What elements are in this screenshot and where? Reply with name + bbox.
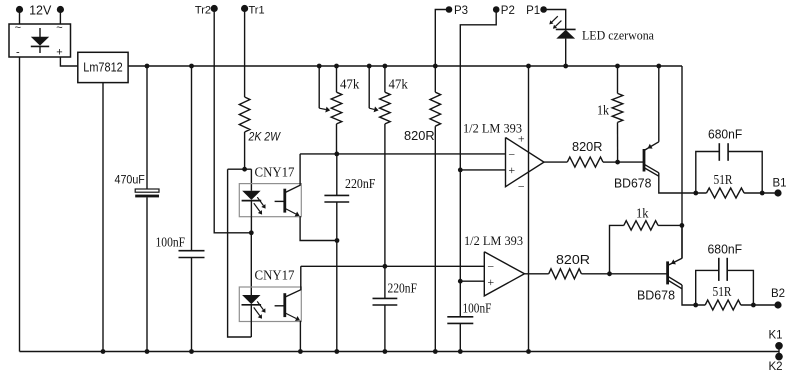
LED D1 inside CNY17 upper [242,191,260,200]
svg-text:LED czerwona: LED czerwona [582,28,654,43]
svg-text:BD678: BD678 [614,176,651,191]
junction rail RV2 wiper [367,64,372,69]
regulator U1 Lm7812 box [78,52,128,82]
svg-text:CNY17: CNY17 [255,268,295,283]
svg-text:+: + [487,275,494,289]
svg-text:BD678: BD678 [637,288,675,303]
svg-text:K1: K1 [768,329,782,341]
optocoupler U2 CNY17 box [239,184,301,217]
svg-text:Lm7812: Lm7812 [83,61,123,75]
svg-text:+: + [518,132,525,146]
wire Q1 collector down to output line [659,173,707,193]
wire R8 to B2 [741,304,775,306]
svg-text:-: - [16,47,20,59]
phototransistor emitter CNY17 lower with arrow [285,313,296,319]
capacitor C4 220nF plates [373,297,398,299]
wire LED1 cathode down to midpoint [250,217,252,233]
wire bridge minus to ground rail [19,57,21,352]
terminal P3 [446,6,453,13]
junction ground supply [526,349,531,354]
wire P2 jog down to input column [460,12,496,170]
terminal Tr2 [211,5,218,12]
svg-text:−: − [487,259,494,273]
potentiometer RV1 wiper [318,66,320,108]
capacitor C6 680nF parallel branch [696,152,720,194]
wire LED midpoint down to LED2 anode [250,233,252,295]
resistor R5 51R [707,188,745,198]
capacitor C4 220nF wire [384,266,386,298]
svg-text:K2: K2 [768,361,782,373]
svg-text:Tr2: Tr2 [195,4,211,16]
capacitor C2 100nF plates [179,250,205,252]
svg-text:~: ~ [56,22,62,34]
svg-text:−: − [508,147,515,161]
wire R3 to base node [603,161,618,163]
junction ground Lm7812 [101,349,106,354]
light arrows CNY17 lower [257,301,263,309]
svg-text:Tr1: Tr1 [249,4,265,16]
junction ground 100nF [189,349,194,354]
junction N1 pot1 [334,152,339,157]
junction rail RV1 top [334,64,339,69]
capacitor C2 100nF wire bottom [191,258,193,352]
svg-text:51R: 51R [714,172,733,187]
resistor R3 820R [567,157,603,167]
svg-text:470uF: 470uF [115,173,145,187]
wire op2 plus input [460,280,484,282]
wire Tr2 down to LED midpoint [214,12,251,233]
resistor R1 2K 2W [239,97,250,132]
bridge rectifier B1 box [9,24,71,57]
junction ground R2 [433,349,438,354]
terminal Tr1 [241,5,248,12]
transistor Q1 emitter with arrow to +12V [644,142,659,151]
potentiometer RV2 47k top wire [384,66,386,92]
svg-text:B2: B2 [771,288,785,300]
svg-text:~: ~ [15,22,21,34]
wire bridge plus to regulator input [60,57,77,66]
capacitor C4 220nF wire bottom [384,305,386,352]
junction op2 plus input [458,279,463,284]
capacitor C1 470uF wire bottom [146,197,148,351]
junction LED midpoint [249,230,254,235]
svg-text:820R: 820R [572,140,602,154]
wire Q2 collector down to output line 2 [682,285,705,305]
svg-text:1/2 LM 393: 1/2 LM 393 [464,233,523,248]
wire column down to capacitor C5 [459,281,461,317]
junction output2 left node [693,303,698,308]
wire op2 output [525,273,549,275]
resistor R8 51R [705,300,741,310]
transistor Q2 base bar [666,261,669,284]
svg-text:820R: 820R [556,253,590,267]
resistor R2 820R vertical [430,92,441,126]
svg-text:B1: B1 [772,178,786,190]
potentiometer RV1 47k body [331,92,342,124]
LED D3 light arrows [552,16,558,22]
bridge diode symbol [39,28,41,37]
transistor Q2 collector double line [668,276,682,285]
resistor R6 820R [549,269,582,279]
capacitor C3 220nF plates [324,194,349,196]
junction rail P3 [433,64,438,69]
terminal B1 [774,189,781,196]
junction op1 plus input [458,168,463,173]
wire R1 to node A [244,132,246,169]
junction rail Q1 emitter [656,64,661,69]
phototransistor collector CNY17 upper [285,154,300,193]
junction ground C3 [334,349,339,354]
terminal 12V input left [16,6,23,13]
junction 1k to +12 drop [680,223,685,228]
wire node A right branch to LED1 anode [250,169,252,191]
capacitor C5 100nF plates [447,316,473,318]
comparator U4B 1/2 LM393 triangle [484,252,524,296]
capacitor C1 470uF wire top [146,66,148,189]
junction base node Q2 [607,271,612,276]
junction rail 470uF [145,64,150,69]
svg-text:2K 2W: 2K 2W [248,132,281,144]
transistor Q1 BD678 base wire [618,161,644,163]
capacitor C3 220nF wire [336,154,338,196]
junction output1 left node [693,191,698,196]
junction rail supply [526,64,531,69]
terminal 12V input right [57,6,64,13]
junction rail LED [563,64,568,69]
junction N2 pot2 [383,264,388,269]
phototransistor base bar CNY17 lower [283,293,286,317]
junction ground C4 [383,349,388,354]
phototransistor emitter CNY17 upper with arrow [285,209,296,215]
terminal K2 [775,353,783,361]
resistor R4 1k pullup [617,66,619,93]
wire +12V rail end drop to Q2 emitter [681,66,683,259]
wire LED2 cathode down and back [250,305,252,337]
terminal P1 [540,6,547,13]
node A junction [242,167,247,172]
wire ground bottom rail [20,351,780,353]
potentiometer RV2 47k body [380,92,391,124]
terminal K1 [775,342,783,350]
wire R5 to B1 [744,192,774,194]
transistor Q1 collector double line [644,164,659,173]
transistor Q2 emitter with arrow to +12V [668,258,682,265]
svg-text:47k: 47k [340,77,360,92]
junction ground 470uF [145,349,150,354]
svg-text:1k: 1k [597,103,609,118]
wire Tr1 down to resistor R1 [244,12,246,97]
junction rail 100nF [189,64,194,69]
svg-text:−: − [518,179,525,193]
svg-text:+: + [56,47,62,59]
potentiometer RV2 wiper [368,66,370,108]
svg-text:P3: P3 [454,5,468,17]
capacitor C3 220nF wire bottom to ground [336,202,338,352]
potentiometer RV1 47k top wire [336,66,338,92]
junction ground C5 [458,349,463,354]
wire op1 plus input [460,169,505,171]
resistor R7 1k feedback [610,225,624,273]
wire input column down to op2 plus [459,170,461,281]
wire Lm7812 ground lead [102,83,104,352]
svg-text:47k: 47k [389,77,409,92]
comparator U4A 1/2 LM393 triangle [506,138,545,187]
svg-text:680nF: 680nF [708,128,743,142]
capacitor C7 680nF parallel branch 2 [696,270,719,305]
transistor Q2 BD678 base wire [610,273,668,275]
phototransistor collector CNY17 lower [285,266,301,297]
junction rail RV1 wiper [317,64,322,69]
svg-text:1k: 1k [636,206,649,221]
wire rail to resistor R2 [434,66,436,92]
svg-text:+: + [508,163,515,177]
wire pot2 down to N2 crossing N1 [384,124,386,266]
wire op1 output [544,161,567,163]
wire pot1 to N1 [336,124,338,154]
wire P1 to LED [546,10,566,30]
LED D3 czerwona [556,28,576,30]
wire N2 horizontal to comparator 2 [301,265,485,267]
comparator supply line through op-amps [528,66,530,352]
svg-text:100nF: 100nF [156,235,186,250]
wire N1 horizontal to comparator 1 [300,153,505,155]
transistor Q1 base bar [643,149,646,172]
terminal P2 [493,6,500,13]
svg-text:820R: 820R [404,129,435,143]
junction emitter1 to ground line [335,238,340,243]
svg-text:P2: P2 [501,5,515,17]
junction base node Q1 [615,160,620,165]
junction output2 right node [751,303,756,308]
svg-text:P1: P1 [526,5,540,17]
svg-text:100nF: 100nF [463,301,492,316]
svg-text:12V: 12V [29,3,52,17]
svg-text:51R: 51R [713,284,732,299]
junction rail 1k [615,64,620,69]
terminal B2 [774,301,781,308]
wire node A left branch down to LED2 cathode return [228,169,252,337]
wire R6 to base node 2 [581,273,609,275]
svg-text:1/2 LM 393: 1/2 LM 393 [463,121,522,136]
wire node A horizontal [228,168,252,170]
phototransistor base stub CNY17 upper [275,200,285,202]
wire C5 to ground [459,323,461,351]
optocoupler U3 CNY17 box [239,287,301,322]
light arrows CNY17 upper [257,197,263,205]
wire +12V top rail [128,65,682,67]
svg-text:CNY17: CNY17 [255,165,295,180]
junction emitter2 ground [298,349,303,354]
capacitor C2 100nF wire top [191,66,193,251]
phototransistor base bar CNY17 upper [283,189,286,213]
wire R2 down to ground crossing N1 N2 [434,126,436,351]
LED D2 inside CNY17 lower [242,295,260,304]
junction rail RV2 top [383,64,388,69]
svg-text:680nF: 680nF [708,243,743,257]
junction output1 right node [760,191,765,196]
wire P3 to rail [435,10,449,67]
svg-text:220nF: 220nF [345,176,376,191]
capacitor C1 470uF polarized plates [135,189,159,192]
svg-text:220nF: 220nF [388,281,418,296]
phototransistor base stub CNY17 lower [275,305,285,307]
